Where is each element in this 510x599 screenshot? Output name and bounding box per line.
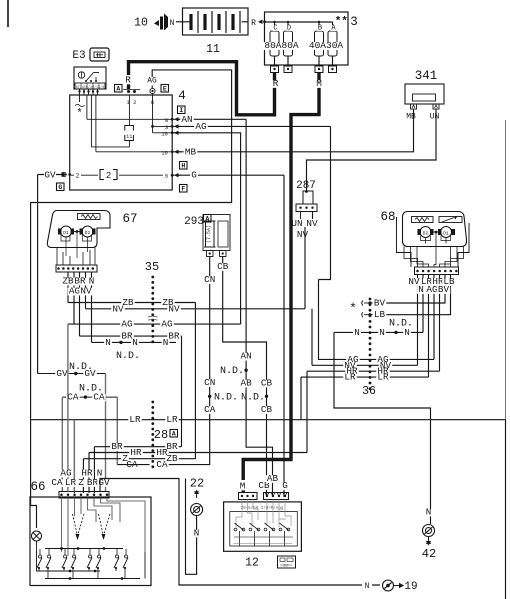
wire LR 66 pin drop — [73, 420, 75, 492]
svg-text:68: 68 — [380, 210, 395, 224]
wire UN 341 to connector 287 — [307, 109, 437, 191]
wire box4 internal fuse return — [91, 146, 129, 148]
node CN label under 293 — [203, 276, 217, 284]
node NV labels 36 — [343, 362, 357, 370]
wire GV row — [38, 373, 106, 375]
wire LB 68 pin drop — [378, 275, 451, 315]
relay 12 inner frame — [230, 512, 297, 547]
wire AN-AB (box4 pin8 to relay 12) — [176, 119, 273, 497]
svg-text:A: A — [172, 431, 176, 438]
svg-text:N: N — [365, 582, 370, 591]
relay 12 contacts — [234, 528, 237, 531]
pin 6 of box4 — [150, 88, 155, 93]
node labels under 68 row1 — [407, 278, 421, 286]
node MB label at box4 — [184, 149, 198, 157]
wire 66 internal feeds — [62, 498, 146, 556]
svg-text:*: * — [349, 301, 357, 316]
wire BR 67 pin drop — [79, 272, 81, 336]
unit 341 pins — [411, 104, 417, 109]
fuse amp labels — [263, 42, 300, 50]
svg-text:CA: CA — [204, 404, 216, 415]
fuse 293 inner right box — [218, 221, 228, 247]
svg-text:B: B — [318, 25, 322, 33]
svg-text:(7.5A): (7.5A) — [206, 225, 212, 243]
svg-text:AG: AG — [69, 286, 80, 297]
node AN label at box4 — [180, 116, 194, 124]
wire M (thick) fusebox to relaybox 12 — [243, 73, 319, 481]
node R label under fuse C — [272, 80, 280, 88]
connector strip 35 — [151, 276, 154, 279]
wire N 68 pin drop — [422, 275, 424, 333]
svg-text:36: 36 — [362, 385, 376, 398]
svg-text:D2: D2 — [85, 230, 91, 236]
svg-text:N: N — [170, 19, 175, 28]
svg-text:*: * — [341, 16, 348, 28]
svg-text:CN: CN — [204, 274, 215, 285]
svg-text:30/5/50 I/O/M/Agg: 30/5/50 I/O/M/Agg — [241, 506, 284, 511]
svg-text:10: 10 — [161, 149, 168, 156]
ignition switch box — [74, 67, 106, 89]
wire ZB row — [68, 303, 195, 459]
wire CA row — [62, 396, 117, 398]
node HR labels 36 — [345, 368, 359, 376]
wire 66 lamp down — [37, 541, 61, 571]
wire LR 68 pin drop — [428, 275, 430, 378]
svg-text:G: G — [58, 184, 62, 191]
pin hook BV at 36 — [362, 301, 363, 306]
fuse A 30A — [332, 22, 334, 31]
icon relay pinout — [278, 556, 296, 568]
pin 8 AN of box4 — [171, 118, 174, 121]
node CB label mid — [260, 380, 274, 388]
pin 3 AG of box4 — [171, 125, 174, 128]
svg-text:BV: BV — [374, 298, 386, 309]
wire fusebox bus — [265, 21, 333, 23]
switch actuator arrows in 66 — [73, 514, 85, 536]
node CA label right row — [155, 461, 169, 469]
ground 42 symbol — [423, 525, 435, 537]
connector label H — [180, 162, 188, 170]
wire ZB 67 pin drop — [67, 272, 69, 303]
fuse D 80A — [287, 22, 289, 31]
connector strip 36 — [369, 298, 372, 301]
node Z ZB labels 28 — [121, 455, 129, 463]
svg-text:E3: E3 — [72, 50, 85, 62]
svg-text:NV: NV — [112, 303, 124, 314]
relay 12 connector strips — [239, 493, 258, 500]
wire N row — [92, 341, 177, 343]
node N labels at 36 — [353, 329, 361, 337]
fuse 293 pins — [207, 251, 214, 257]
node BR labels 28 — [110, 443, 124, 451]
svg-text:2: 2 — [76, 173, 80, 180]
node AG labels row — [120, 321, 134, 329]
wire Z-ZB row 28 — [83, 459, 195, 493]
svg-text:AN: AN — [241, 351, 252, 362]
wire AG feed (box4 pin6 to switch 66 lamp) — [31, 70, 232, 528]
svg-text:BV: BV — [438, 284, 450, 295]
node BR labels row — [120, 333, 134, 341]
connector strip of 67 — [56, 265, 97, 272]
node CB label at 12 — [257, 482, 271, 490]
wire CA stub 66 — [117, 464, 149, 466]
node CB label lower — [260, 406, 274, 414]
svg-text:N: N — [404, 327, 410, 338]
wire LR row 36 — [301, 377, 429, 420]
wire 68 internal legs — [421, 236, 451, 241]
wire HR row 36 — [307, 371, 440, 452]
svg-text:LB: LB — [374, 309, 386, 320]
svg-text:R: R — [273, 78, 279, 89]
bulb D2 in 67 — [82, 226, 93, 237]
connector 35 break marks — [148, 316, 158, 320]
fuse B 40A — [318, 22, 320, 31]
node LB label at 36 — [373, 311, 387, 319]
svg-text:C: C — [273, 25, 277, 33]
wire N row 36 to ground 42 — [334, 332, 431, 524]
headlamp 67 body — [47, 211, 110, 248]
svg-text:BR: BR — [87, 477, 99, 488]
svg-text:N: N — [163, 337, 169, 348]
relay 12 outline — [224, 502, 302, 551]
node CA label left 28 — [125, 461, 139, 469]
wire NV row — [86, 308, 306, 310]
svg-text:UN: UN — [291, 218, 302, 229]
svg-text:2: 2 — [106, 171, 111, 181]
node BV label at 36 — [373, 300, 387, 308]
svg-text:ZB: ZB — [166, 453, 178, 464]
wire N 66 to ground 19 — [100, 479, 380, 586]
svg-text:3: 3 — [350, 15, 358, 29]
svg-text:1 2: 1 2 — [127, 99, 137, 106]
connector 287 body — [305, 190, 308, 193]
fusebox 3 outline — [265, 12, 349, 65]
svg-text:293: 293 — [184, 216, 204, 228]
svg-text:AG: AG — [147, 77, 157, 86]
wire 67 bulbs link — [74, 231, 80, 233]
resistor W in 68 — [412, 217, 434, 223]
pin 1 2 of box4 — [127, 90, 130, 93]
svg-text:AG: AG — [195, 121, 206, 132]
node R label at box4 — [124, 77, 132, 85]
bulb D2 in 68 — [420, 227, 431, 238]
fuse 293 element — [206, 221, 215, 247]
node LR labels long row — [128, 416, 142, 424]
node M label at relay 12 — [239, 483, 247, 491]
adjuster symbol in 68 — [439, 217, 462, 223]
node ZB labels row — [121, 299, 135, 307]
svg-text:*: * — [76, 108, 83, 120]
svg-text:AB: AB — [241, 378, 253, 389]
svg-text:E: E — [163, 86, 167, 93]
node G label at 12 — [281, 482, 289, 490]
wire N 67 pin drop — [91, 272, 93, 342]
connector label A — [115, 85, 123, 93]
node N labels row — [104, 339, 112, 347]
wire AG row — [68, 133, 241, 324]
connector strip of 68 — [415, 267, 459, 275]
wire relay 12 internal bus — [234, 536, 293, 538]
svg-text:F: F — [181, 186, 185, 193]
ground 22 arrow — [196, 493, 198, 498]
svg-text:AN: AN — [181, 114, 192, 125]
svg-text:AG: AG — [426, 284, 437, 295]
svg-text:11: 11 — [126, 134, 132, 140]
wire 67 internal legs — [61, 232, 92, 259]
wire BR row — [80, 336, 182, 447]
svg-text:BR: BR — [168, 331, 180, 342]
bulb D1 in 68 — [441, 227, 452, 238]
fuse 293 dashed box — [203, 215, 230, 251]
svg-text:R: R — [251, 19, 256, 28]
svg-text:8: 8 — [165, 117, 168, 124]
svg-text:66: 66 — [30, 480, 45, 494]
svg-text:CB: CB — [261, 378, 273, 389]
svg-text:N.D.: N.D. — [220, 366, 244, 377]
wire relay 12 internal feeds — [236, 500, 291, 527]
svg-text:N: N — [379, 327, 385, 338]
wire AG row 36 — [366, 358, 434, 360]
connector strip of 66 — [59, 492, 109, 499]
node G label at box4 — [190, 172, 198, 180]
connector label F — [180, 185, 188, 193]
svg-text:35: 35 — [145, 260, 159, 274]
svg-text:4: 4 — [178, 89, 186, 103]
svg-text:NV: NV — [168, 303, 180, 314]
svg-text:22: 22 — [190, 477, 204, 491]
svg-text:UN: UN — [430, 113, 440, 122]
wire LR long row — [31, 420, 506, 599]
svg-text:N: N — [426, 507, 432, 518]
wire CN-CA (293 to strip 28) — [156, 257, 210, 465]
node N label ground 42 — [425, 509, 433, 517]
wire box4 internal bottom row — [71, 174, 163, 176]
node GV label at box4 — [43, 172, 57, 180]
pin 2 GV of box4 — [68, 173, 71, 176]
svg-text:N.D.: N.D. — [241, 393, 265, 404]
ignition switch pins to box4 — [79, 89, 81, 95]
icon E3 key — [90, 48, 109, 61]
node AB label mid — [239, 380, 253, 388]
svg-text:80A80A: 80A80A — [264, 40, 299, 51]
svg-text:NV: NV — [306, 218, 318, 229]
node labels under 68 row2 — [417, 286, 425, 294]
node AN label mid — [239, 353, 253, 361]
node AG labels 36 — [346, 356, 360, 364]
fuse C 80A — [274, 22, 276, 31]
wire AG 68 pin drop — [433, 275, 435, 360]
svg-text:GV: GV — [44, 169, 56, 180]
svg-text:MB: MB — [185, 146, 197, 157]
unit 341 outline — [405, 84, 444, 104]
wire 66 internal bus upper — [45, 548, 123, 550]
wire MB 341 to box4 — [176, 109, 414, 152]
svg-text:M: M — [316, 78, 322, 89]
wire AG 67 pin drop — [73, 272, 75, 324]
pin 5 G of box4 — [171, 174, 174, 177]
wire scan-edge mark top left — [7, 0, 9, 27]
wire R (thick) fusebox to ignition box 4 — [129, 62, 275, 115]
wire BR row 28 — [94, 447, 181, 493]
connector label A at 28 — [170, 430, 178, 438]
ground 22 symbol — [191, 504, 203, 516]
node labels under 67 row2 — [68, 288, 82, 296]
svg-text:LR: LR — [65, 477, 77, 488]
switch 66 outline — [30, 497, 151, 586]
headlamp 68 body — [403, 212, 467, 247]
svg-text:NV: NV — [297, 229, 309, 240]
node CN label mid — [203, 379, 217, 387]
svg-text:NV: NV — [80, 286, 92, 297]
svg-text:N: N — [194, 528, 200, 539]
svg-text:CA: CA — [51, 477, 63, 488]
svg-text:D2: D2 — [423, 231, 429, 237]
bulb D1 in 67 — [61, 226, 72, 237]
wire N ground 22 — [186, 479, 197, 575]
svg-text:28: 28 — [154, 428, 168, 442]
resistor W in 67 — [78, 214, 101, 220]
svg-text:AG: AG — [161, 319, 172, 330]
connector label I — [178, 106, 186, 114]
svg-text:GV: GV — [56, 368, 68, 379]
pin 10 AG of box4 — [171, 131, 174, 134]
wire HR row 28 — [89, 453, 307, 494]
svg-text:341: 341 — [415, 69, 438, 83]
svg-text:40A30A: 40A30A — [309, 40, 344, 51]
node LR labels 36 — [343, 374, 357, 382]
wire UN stub 287 — [300, 212, 302, 220]
pin 10 MB of box4 — [171, 150, 174, 153]
svg-text:R: R — [125, 75, 131, 86]
svg-text:AB: AB — [267, 473, 279, 484]
wire N horn to battery — [176, 21, 183, 23]
svg-text:19: 19 — [404, 581, 417, 593]
wire box4 internal pin drops — [80, 95, 96, 152]
svg-text:N: N — [418, 284, 424, 295]
node CB label under 293 — [216, 263, 230, 271]
svg-text:HR: HR — [130, 447, 142, 458]
node AG label at box4 pin3 — [194, 123, 208, 131]
svg-text:AG: AG — [121, 319, 132, 330]
svg-text:CN: CN — [204, 377, 215, 388]
wire AG 66 pin drop — [67, 324, 69, 491]
wire NV 68 pin drop — [417, 275, 419, 366]
wire page border right edge — [505, 120, 507, 599]
node N label ground 22 — [193, 530, 201, 538]
svg-text:LR: LR — [129, 414, 141, 425]
svg-text:N.D.: N.D. — [214, 393, 238, 404]
svg-text:10: 10 — [134, 17, 148, 30]
wire box4 internal to MB pin — [96, 151, 172, 153]
lamp in 66 — [32, 531, 42, 541]
junction box 4 outline — [70, 95, 173, 190]
svg-text:11: 11 — [206, 43, 220, 56]
wire CB (293 to relay 12) — [223, 257, 267, 498]
svg-text:MB: MB — [406, 113, 416, 122]
battery 11 — [183, 8, 249, 35]
wire G (box4 pin5 to relay 12) — [176, 175, 284, 497]
svg-text:G: G — [282, 480, 288, 491]
svg-text:N: N — [132, 337, 138, 348]
wire AG long (box4 pin3 to strip 36) — [176, 126, 366, 359]
svg-text:10: 10 — [161, 130, 168, 137]
ground 19 symbol — [383, 580, 394, 591]
wire box4 internal pin6 to AG pins — [153, 94, 173, 133]
node CA label mid — [203, 406, 217, 414]
node junction CN-CA — [208, 395, 211, 398]
wire NV 287 down to row — [305, 212, 313, 309]
ignition switch symbol — [78, 72, 84, 78]
svg-text:5: 5 — [165, 173, 168, 180]
node labels under 67 row1 — [61, 278, 75, 286]
wire 66 internal bus lower — [37, 552, 146, 579]
svg-text:BR: BR — [111, 441, 123, 452]
svg-text:H: H — [181, 163, 185, 170]
node HR labels 28 — [129, 449, 143, 457]
svg-text:D1: D1 — [63, 230, 69, 236]
fuse 11 inside box4 — [128, 95, 130, 126]
wire box4 internal to pin8 — [87, 118, 172, 120]
switch contacts in 66 — [39, 555, 42, 558]
svg-text:D1: D1 — [443, 231, 449, 237]
svg-text:LR: LR — [377, 372, 389, 383]
node junction CB — [265, 395, 268, 398]
svg-text:LR: LR — [344, 372, 356, 383]
node labels above 66 row2 — [50, 479, 64, 487]
svg-text:M: M — [240, 481, 246, 492]
svg-text:CA: CA — [67, 392, 79, 403]
connector label G — [57, 183, 65, 191]
wire HR 68 pin drop — [439, 275, 441, 372]
svg-text:CA: CA — [93, 392, 105, 403]
node junction AN-AB — [244, 369, 247, 372]
wire NV row 36 — [312, 309, 418, 366]
node AB label at 12 — [266, 475, 280, 483]
wire NV 67 pin drop — [85, 272, 87, 309]
svg-text:N: N — [105, 337, 111, 348]
svg-text:42: 42 — [422, 547, 436, 561]
svg-text:D: D — [287, 25, 291, 33]
wire GV box4 to junction row — [38, 175, 62, 374]
wire 68 bulbs link — [434, 231, 439, 233]
connector label E — [161, 85, 169, 93]
svg-text:GV: GV — [84, 368, 96, 379]
svg-text:CB: CB — [261, 404, 273, 415]
node CA labels row — [66, 394, 80, 402]
svg-text:67: 67 — [122, 212, 137, 226]
svg-text:INT/A50/30/15/87: INT/A50/30/15/87 — [74, 85, 107, 90]
svg-text:G: G — [191, 170, 197, 181]
horn 10 symbol — [154, 20, 159, 26]
node NV labels row — [111, 306, 125, 314]
node GV labels row — [55, 370, 69, 378]
ignition switch pin row — [75, 83, 105, 89]
svg-text:N: N — [354, 327, 360, 338]
node labels above 66 row1 — [59, 470, 73, 478]
svg-text:CB: CB — [217, 261, 229, 272]
svg-text:Z: Z — [78, 477, 84, 488]
connector label A at 293 — [204, 215, 212, 223]
svg-text:N.D.: N.D. — [116, 351, 140, 362]
wire R battery to fusebox with arrow — [258, 20, 263, 25]
connector strip 28 — [151, 401, 154, 404]
pin hook LB at 36 — [362, 312, 363, 317]
node M label under fuse B — [315, 80, 323, 88]
label [ 2 ] in box4 — [100, 170, 117, 180]
wire BV 68 pin drop — [383, 275, 445, 304]
svg-text:A: A — [116, 86, 120, 93]
svg-text:LR: LR — [166, 414, 178, 425]
